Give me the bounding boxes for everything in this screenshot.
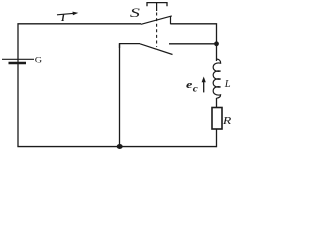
wire bottom [17,146,216,148]
svg-text:I: I [60,13,66,24]
wire lower switch to node A [169,43,217,45]
svg-text:L: L [224,79,231,90]
svg-text:c: c [193,84,198,94]
svg-text:S: S [130,5,141,20]
battery inter-plate stub [17,59,19,63]
battery G short plate [9,62,27,64]
switch S upper blade [141,16,172,24]
battery G long plate [2,58,34,60]
inductor L coil [213,59,220,98]
wire node A to inductor [216,44,218,61]
switch S lower-left wire from middle branch [120,44,141,48]
node B junction dot [117,144,123,149]
switch S actuator bracket [147,3,167,7]
switch S upper contact tick [170,16,172,24]
switch S actuator stem [156,3,158,11]
wire resistor to bottom [216,129,218,147]
wire left vertical (battery to bottom) [17,63,19,147]
node A junction dot [214,41,219,46]
wire top-left (battery to switch S pivot) [18,24,141,59]
svg-text:e: e [186,79,193,91]
svg-text:R: R [222,114,232,126]
wire inductor to resistor [216,98,218,108]
wire top-right (contact to right corner) [171,24,217,44]
switch S lower blade [140,44,173,55]
svg-text:G: G [35,56,43,65]
current arrow I [57,12,78,16]
resistor R body [212,108,222,130]
wire middle vertical [119,44,121,147]
arrow e_c polarity [202,77,206,93]
switch S linkage dashed [156,13,158,48]
